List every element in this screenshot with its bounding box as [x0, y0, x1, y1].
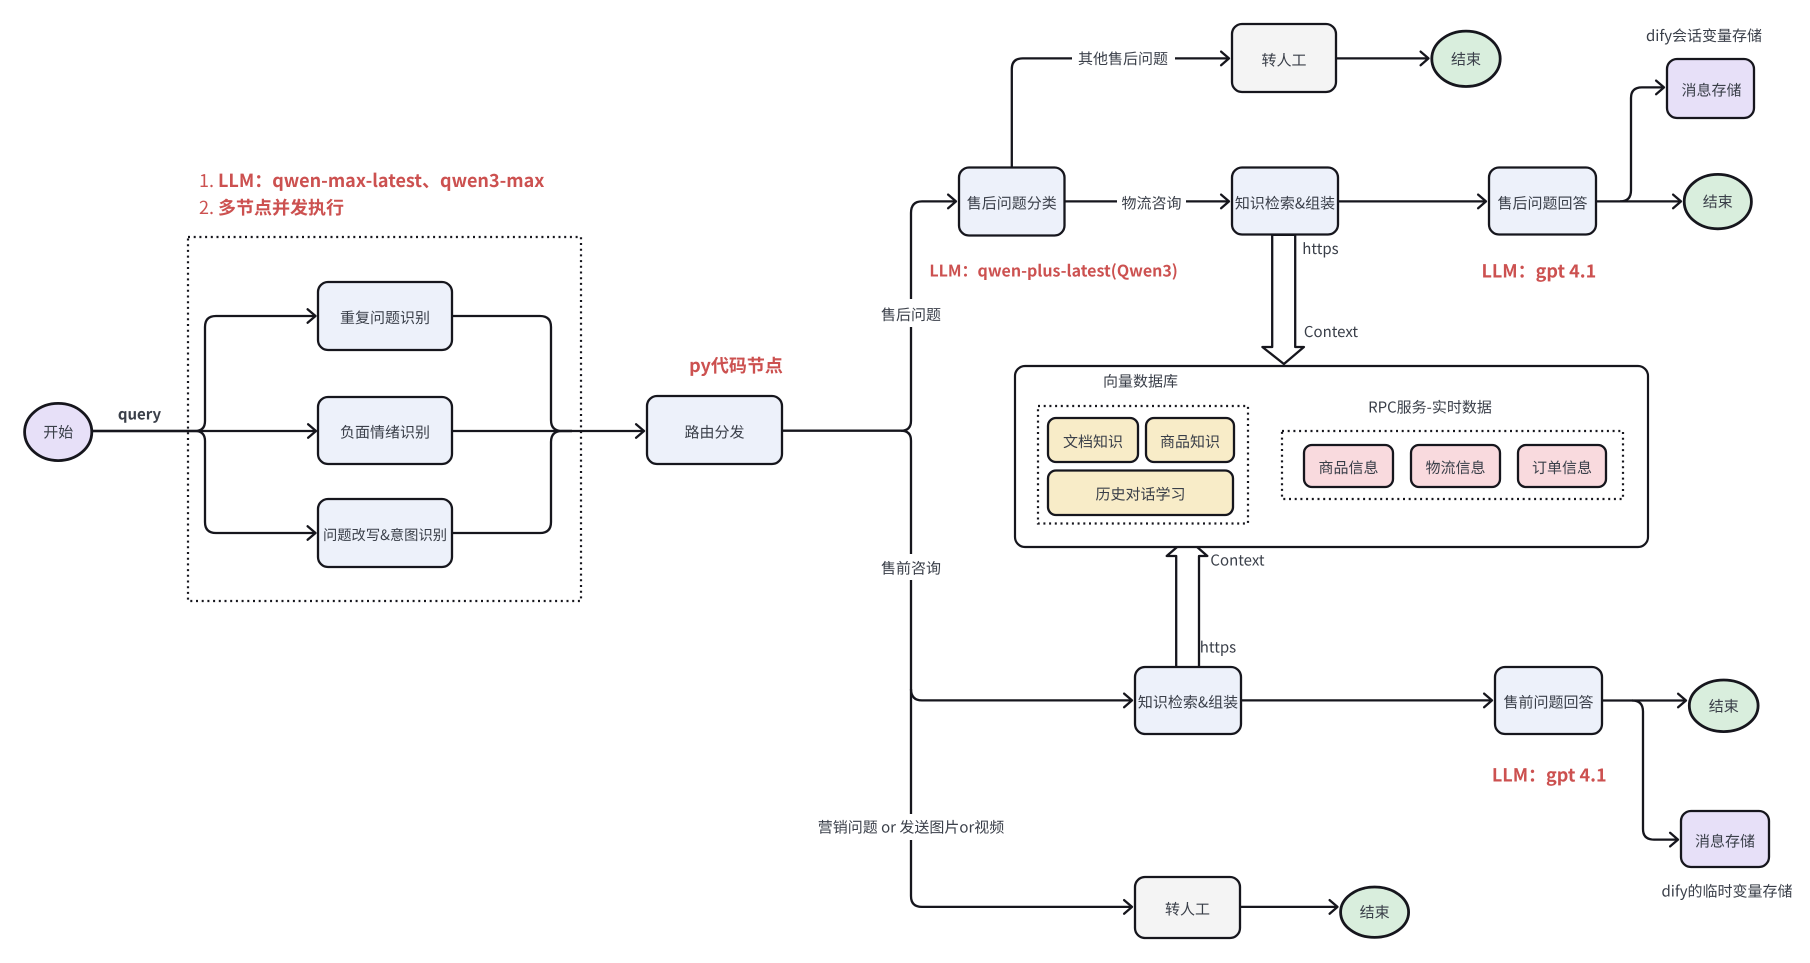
svg-text:重复问题识别: 重复问题识别: [340, 307, 430, 328]
svg-text:路由分发: 路由分发: [684, 422, 744, 443]
svg-text:售后问题分类: 售后问题分类: [967, 193, 1057, 214]
svg-text:售后问题: 售后问题: [881, 304, 941, 325]
svg-text:向量数据库: 向量数据库: [1103, 371, 1178, 392]
svg-text:转人工: 转人工: [1165, 899, 1210, 920]
svg-text:结束: 结束: [1360, 902, 1390, 923]
svg-text:1. LLM：qwen-max-latest、qwen3-m: 1. LLM：qwen-max-latest、qwen3-max: [199, 167, 544, 193]
svg-text:消息存储: 消息存储: [1695, 830, 1755, 851]
svg-text:Context: Context: [1210, 550, 1264, 571]
svg-text:消息存储: 消息存储: [1681, 79, 1741, 100]
svg-text:LLM：qwen-plus-latest(Qwen3): LLM：qwen-plus-latest(Qwen3): [929, 258, 1177, 282]
svg-text:订单信息: 订单信息: [1532, 457, 1592, 478]
svg-text:负面情绪识别: 负面情绪识别: [340, 422, 430, 443]
svg-text:问题改写&意图识别: 问题改写&意图识别: [323, 524, 447, 545]
svg-text:售后问题回答: 售后问题回答: [1497, 193, 1587, 214]
svg-text:dify会话变量存储: dify会话变量存储: [1646, 25, 1762, 46]
svg-text:文档知识: 文档知识: [1063, 431, 1123, 452]
svg-text:结束: 结束: [1703, 191, 1733, 212]
svg-text:物流咨询: 物流咨询: [1121, 193, 1181, 214]
svg-text:商品知识: 商品知识: [1160, 431, 1220, 452]
svg-text:商品信息: 商品信息: [1318, 457, 1378, 478]
svg-text:RPC服务-实时数据: RPC服务-实时数据: [1368, 397, 1492, 418]
svg-text:LLM：gpt 4.1: LLM：gpt 4.1: [1492, 762, 1607, 788]
svg-text:结束: 结束: [1451, 48, 1481, 69]
svg-text:py代码节点: py代码节点: [689, 352, 783, 378]
svg-text:物流信息: 物流信息: [1425, 457, 1485, 478]
svg-text:2. 多节点并发执行: 2. 多节点并发执行: [199, 194, 344, 220]
svg-text:https: https: [1302, 238, 1338, 259]
svg-text:Context: Context: [1304, 321, 1358, 342]
svg-text:https: https: [1200, 637, 1236, 658]
svg-text:结束: 结束: [1709, 695, 1739, 716]
svg-text:转人工: 转人工: [1261, 50, 1306, 71]
svg-text:历史对话学习: 历史对话学习: [1095, 484, 1185, 505]
svg-text:dify的临时变量存储: dify的临时变量存储: [1661, 881, 1792, 902]
svg-text:知识检索&组装: 知识检索&组装: [1138, 692, 1238, 713]
svg-text:营销问题 or 发送图片or视频: 营销问题 or 发送图片or视频: [818, 817, 1005, 838]
svg-text:LLM：gpt 4.1: LLM：gpt 4.1: [1482, 257, 1597, 283]
svg-text:开始: 开始: [43, 422, 73, 443]
svg-text:其他售后问题: 其他售后问题: [1078, 48, 1168, 69]
svg-text:售前咨询: 售前咨询: [881, 558, 941, 579]
svg-text:query: query: [118, 404, 162, 425]
svg-text:售前问题回答: 售前问题回答: [1503, 692, 1593, 713]
svg-text:知识检索&组装: 知识检索&组装: [1235, 193, 1335, 214]
